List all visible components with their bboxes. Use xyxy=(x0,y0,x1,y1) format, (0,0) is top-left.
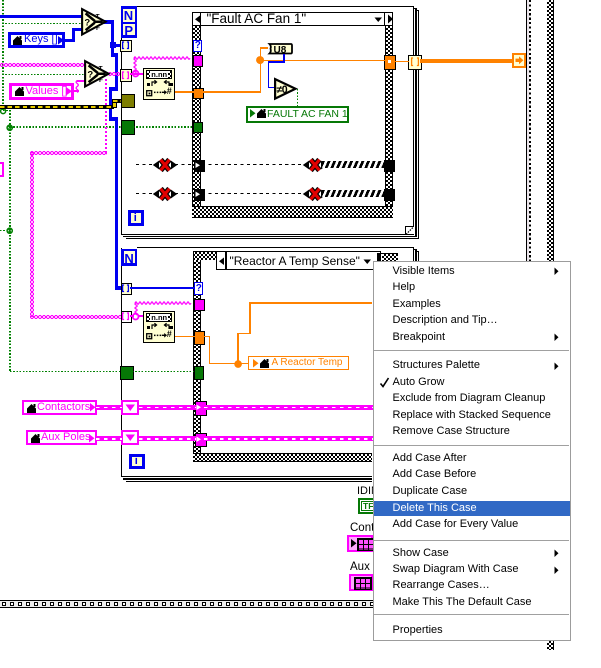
broken wire row 1: dashes xyxy=(136,164,153,165)
tunnel: case2 orange in xyxy=(194,331,205,346)
case 1: bottom border checkered band xyxy=(192,206,393,207)
terminal: loop1 iteration i xyxy=(128,210,144,226)
terminal: Values [] control xyxy=(9,83,74,101)
for loop 1: page 3 edges xyxy=(417,10,419,11)
for loop 2: left border xyxy=(121,248,122,477)
wire: blue U8 to not-equal-0 xyxy=(283,54,285,63)
for loop 2: N count terminal xyxy=(121,249,138,267)
case 2: selector dropdown arrow xyxy=(363,259,372,265)
terminal: Aux Poles control xyxy=(26,430,98,445)
structure: far right case checkered border xyxy=(547,0,554,261)
node: Not Equal To 0? xyxy=(274,78,297,100)
tunnel: loop1 [] magenta (values array in) xyxy=(120,69,131,82)
node: green wire junction at (3,110) xyxy=(0,108,8,116)
label: Aux (clipped) xyxy=(350,562,402,574)
case 2: selector text xyxy=(230,255,360,267)
wire: Keys output staircase xyxy=(64,39,75,42)
node: Select function 1 xyxy=(81,8,107,36)
structure: right loop left edge line xyxy=(526,0,527,261)
tunnel: case2 magenta in xyxy=(194,299,205,312)
node: orange junction dot xyxy=(256,56,265,65)
wire: green dotted branch to Select 2 xyxy=(2,74,86,76)
tunnel: loop2 green square xyxy=(120,366,134,380)
case 1: selector text xyxy=(207,12,307,26)
node: String-To-Number n.nn 1 xyxy=(143,68,175,100)
broken wire row 1: tunnels xyxy=(194,160,205,172)
wire: green dotted to loop2 tunnel xyxy=(10,371,122,373)
tunnel: case1 right orange out xyxy=(384,55,396,70)
tunnel: case2 magenta array 2 xyxy=(195,433,206,447)
case 2: top-right checkered band above menu xyxy=(380,253,398,254)
broken wire row 2: X symbol right xyxy=(302,186,328,202)
structure: right loop dashed edge xyxy=(529,0,531,261)
node: To-U8 conversion xyxy=(266,43,293,55)
tunnel: case2 magenta array 1 xyxy=(195,401,206,415)
node: magenta junction 1 xyxy=(132,70,140,78)
node: blue junction dot xyxy=(110,42,116,48)
terminal: green boolean array (clipped) xyxy=(358,498,380,514)
terminal: A Reactor Temp local xyxy=(248,356,349,370)
wire: blue thin selector wire loop2 xyxy=(130,287,195,288)
wire: Select1 output blue xyxy=(104,20,114,23)
node: green junction at (10,127) xyxy=(6,124,14,132)
wire: magenta string to n.nn node 1 xyxy=(130,73,145,75)
wire: chain stub from loop2 magenta tunnel xyxy=(130,315,134,317)
tunnel: loop2 [] blue xyxy=(121,283,132,296)
for loop 2: top-right stacked corner xyxy=(413,247,414,261)
broken wire row 1: X symbol left xyxy=(152,157,178,173)
label: Cont (clipped) xyxy=(350,523,406,535)
wire: orange riser inside case1 xyxy=(202,91,261,93)
wire: magenta 2D-array chain into Select2 xyxy=(0,63,86,67)
structure: far right case checkered bit below menu xyxy=(547,641,554,651)
film strip: flat sequence border bottom xyxy=(0,600,373,607)
for loop 1: right border page 1 xyxy=(413,6,414,227)
tunnel: case1 orange in xyxy=(193,88,204,99)
tunnel: case1 magenta in xyxy=(193,55,204,66)
wire: string-array wavy vertical x=135 xyxy=(133,58,138,74)
wire: error-style yellow/black wire xyxy=(0,105,114,110)
wire: chain vertical x=31 xyxy=(30,152,34,317)
for loop 1: top border xyxy=(136,6,414,8)
wire: magenta to n.nn 2 xyxy=(138,315,145,317)
tunnel: case1 ? selector terminal xyxy=(193,40,202,52)
wire: chain horizontal to loop2 tunnel xyxy=(30,315,122,319)
case 2: selector label frame xyxy=(216,251,381,270)
case 1: selector increment button xyxy=(384,12,385,27)
wire: wavy vertical x=135 case2 xyxy=(134,303,139,315)
wire: wavy horizontal y=302 case2 xyxy=(135,301,194,306)
wire: orange path inside case2 xyxy=(203,336,210,338)
broken wire row 2: tunnels xyxy=(194,189,205,201)
wire: blue stub into loop1 [] tunnel xyxy=(113,44,122,47)
wire: magenta dotted drop from Select2 xyxy=(105,79,107,152)
node: green junction at (10,230) xyxy=(6,227,14,235)
wire: chain horizontal y=152 xyxy=(30,151,107,155)
broken wire row 1: X symbol right xyxy=(302,157,328,173)
broken wire row 2: X symbol left xyxy=(152,186,178,202)
case 1: selector label frame xyxy=(192,12,393,27)
case 1: left border checkered band xyxy=(192,26,193,207)
tunnel: loop2 indexing triangle 2 xyxy=(121,430,139,445)
tunnel: loop2 [] magenta xyxy=(121,311,132,324)
for loop 1: N P count terminals xyxy=(121,6,138,38)
terminal: Keys [] control xyxy=(8,32,65,49)
for loop 1: page 2 edges xyxy=(414,8,416,9)
wire: orange thin case1 to loop1 tunnel xyxy=(394,61,409,62)
terminal: partial magenta box at left edge y=162 xyxy=(0,162,4,177)
node: Select function 2 xyxy=(84,60,110,88)
label: IDI (clipped by menu) xyxy=(340,480,373,610)
tunnel: loop2 indexing triangle 1 xyxy=(121,400,139,415)
wire: orange n.nn2 to case2 tunnel xyxy=(175,336,195,338)
tunnel: case1 green in xyxy=(193,122,204,133)
for loop 2: top border xyxy=(137,247,414,248)
case 2: selector right separator (above menu) xyxy=(377,253,380,261)
wire: green dotted inside loop1 xyxy=(133,126,194,128)
wire: string-array wavy horizontal y=58 xyxy=(134,56,193,61)
node: String-To-Number n.nn 2 xyxy=(143,311,175,343)
tunnel: orange arrow into right structure xyxy=(512,53,526,68)
for loop 2: bottom stacked borders xyxy=(121,476,373,477)
broken wire row 2: hatched segment xyxy=(322,190,385,197)
wire: chain from Select2 output to loop1 tunnel xyxy=(108,72,122,76)
wire: green dotted branch to Select 1 xyxy=(2,23,82,25)
wire: orange main horizontal to right tunnel xyxy=(261,60,385,62)
svg-text:T: T xyxy=(96,14,100,21)
case 2: bottom border checkered band xyxy=(193,453,373,454)
wire: Aux Poles array dashed xyxy=(96,436,122,441)
broken wire row 2: dashes xyxy=(136,193,153,194)
svg-text:F: F xyxy=(96,25,100,32)
tunnel: loop1 green square xyxy=(121,120,135,135)
structure: right loop gray gap xyxy=(527,0,529,261)
svg-text:F: F xyxy=(99,76,103,83)
case 1: selector decrement button xyxy=(200,12,201,27)
context menu xyxy=(373,261,572,641)
case 2: top checkered band left xyxy=(193,251,217,252)
terminal: loop2 iteration i xyxy=(129,454,145,470)
wire: Contactors array dashed xyxy=(96,405,122,410)
tunnel: loop1 [] blue (keys array in) xyxy=(120,40,131,53)
wire: green dotted stub to left edge xyxy=(0,230,7,232)
wire: orange thick array out of loop1 xyxy=(420,59,513,62)
node: magenta junction 2 xyxy=(132,313,140,321)
menu submenu arrows xyxy=(554,267,559,276)
wire: green dotted from not-equal output down xyxy=(297,89,299,106)
case 1: right border checkered band xyxy=(385,26,386,207)
wire: green trunk vertical x=10 xyxy=(9,110,11,372)
for loop 1: left border xyxy=(121,6,123,235)
tunnel: case2 green in xyxy=(194,366,205,380)
svg-text:T: T xyxy=(99,65,103,72)
wire: green dotted to loop1 tunnel xyxy=(10,126,121,128)
terminal: Contactors control xyxy=(22,400,98,415)
menu item texts xyxy=(393,266,455,277)
wire: orange n.nn1 to case tunnel xyxy=(175,91,194,93)
broken wire row 1: hatched segment xyxy=(322,161,385,168)
wire: green jog to x=10 xyxy=(3,110,11,112)
case 2: left border checkered band xyxy=(193,252,194,453)
terminal: FAULT AC FAN 1 indicator xyxy=(246,106,349,123)
wire: green dotted inside loop2 xyxy=(132,371,194,373)
for loop 1: bottom border page 1 xyxy=(121,234,415,235)
terminal: magenta cluster array 1 (clipped) xyxy=(347,535,373,552)
tunnel: loop1 olive square xyxy=(121,94,135,109)
wire: blue string-array thick top into Select1 xyxy=(0,15,82,18)
menu highlight: Delete This Case xyxy=(374,501,570,516)
for loop 1: dog-ear fold xyxy=(405,226,413,234)
terminal: magenta cluster array 2 (clipped) xyxy=(349,574,373,591)
tunnel: loop1 right [] orange out xyxy=(408,55,421,71)
case 1: selector dropdown arrow xyxy=(374,17,383,23)
wire: boolean green trunk vertical xyxy=(2,0,4,110)
wire: Values output zigzag xyxy=(74,90,79,92)
svg-text:≠0: ≠0 xyxy=(277,84,288,96)
wire: blue trunk jogs down to loop2 xyxy=(111,53,117,56)
tunnel: case2 ? selector terminal xyxy=(194,282,203,295)
